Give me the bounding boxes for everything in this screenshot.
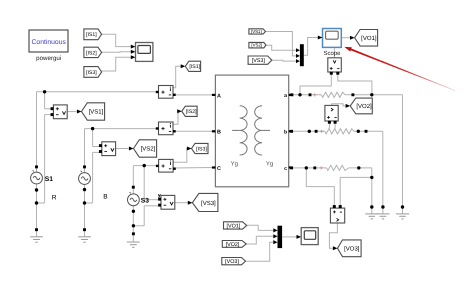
svg-text:b: b [284, 130, 287, 136]
svg-text:Continuous: Continuous [32, 39, 67, 46]
svg-text:R: R [52, 195, 57, 202]
svg-text:[IS2]: [IS2] [186, 109, 197, 115]
svg-text:[IS3]: [IS3] [196, 146, 207, 152]
svg-text:[VO1]: [VO1] [361, 35, 377, 42]
svg-text:[VS1]: [VS1] [89, 109, 104, 116]
svg-text:B: B [217, 130, 221, 136]
svg-text:[VO1]: [VO1] [227, 223, 241, 229]
svg-text:[VO2]: [VO2] [356, 103, 372, 110]
svg-text:[IS3]: [IS3] [86, 70, 97, 76]
svg-text:Yg: Yg [231, 160, 238, 167]
svg-text:[VO3]: [VO3] [344, 245, 360, 252]
svg-text:Yg: Yg [266, 160, 273, 167]
svg-text:S1: S1 [45, 176, 53, 183]
svg-text:[VS3]: [VS3] [252, 58, 266, 64]
svg-text:[IS1]: [IS1] [189, 64, 200, 70]
svg-text:S3: S3 [141, 198, 149, 205]
svg-text:[VS2]: [VS2] [141, 146, 156, 153]
svg-text:c: c [284, 166, 287, 172]
svg-text:[IS2]: [IS2] [86, 50, 97, 56]
svg-text:powergui: powergui [36, 55, 61, 62]
svg-text:[VS1]: [VS1] [251, 29, 262, 34]
svg-text:a: a [284, 93, 287, 99]
svg-text:Scope: Scope [323, 50, 341, 57]
svg-text:[VO3]: [VO3] [225, 259, 239, 265]
svg-text:[VS2]: [VS2] [251, 43, 262, 48]
svg-text:C: C [217, 166, 221, 172]
svg-text:[VS3]: [VS3] [201, 200, 216, 207]
svg-text:A: A [217, 93, 221, 99]
svg-text:[VO2]: [VO2] [226, 242, 240, 248]
svg-text:[IS1]: [IS1] [86, 32, 97, 38]
svg-text:B: B [103, 193, 108, 200]
